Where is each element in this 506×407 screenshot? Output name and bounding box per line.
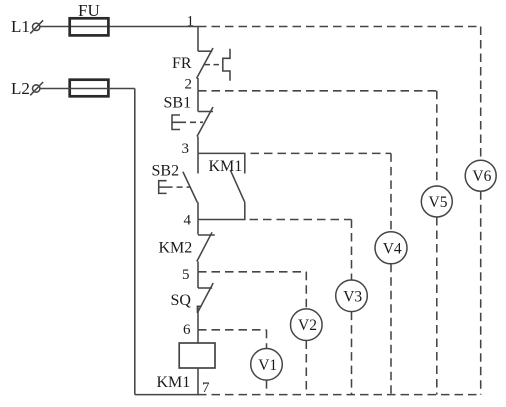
svg-text:3: 3 bbox=[182, 141, 190, 157]
svg-text:SB1: SB1 bbox=[164, 95, 192, 112]
SB1 actuator E bbox=[172, 115, 203, 130]
svg-text:KM1: KM1 bbox=[157, 374, 191, 391]
wire node 4 bbox=[198, 219, 246, 221]
dashed wire node 4 to V3 bbox=[250, 220, 352, 281]
svg-text:V6: V6 bbox=[472, 168, 491, 185]
svg-text:V4: V4 bbox=[383, 240, 402, 257]
limit switch SQ NC bbox=[171, 272, 214, 330]
svg-text:5: 5 bbox=[182, 267, 190, 283]
svg-text:SQ: SQ bbox=[171, 292, 192, 309]
wire node 3 to KM1 branch bbox=[198, 152, 246, 154]
voltmeter V2 bbox=[291, 309, 323, 341]
svg-text:L2: L2 bbox=[11, 79, 30, 98]
svg-text:V1: V1 bbox=[258, 357, 277, 374]
svg-text:4: 4 bbox=[184, 213, 192, 229]
pushbutton SB2 NO bbox=[152, 153, 199, 219]
svg-text:L1: L1 bbox=[11, 17, 30, 36]
contact KM1 auxiliary NO bbox=[209, 153, 245, 220]
dashed wire node 6 to V1 bbox=[198, 330, 267, 349]
svg-text:2: 2 bbox=[185, 77, 193, 93]
SB2 actuator E bbox=[159, 181, 190, 194]
dashed wire V1 to bottom bus bbox=[266, 380, 268, 395]
svg-text:KM1: KM1 bbox=[209, 158, 243, 175]
svg-text:SB2: SB2 bbox=[152, 163, 180, 180]
wire L1 to node 1 bbox=[40, 26, 198, 28]
dashed wire node 5 to V2 bbox=[198, 272, 306, 309]
dashed wire node 1 to V6 bbox=[198, 27, 481, 161]
contact KM2 NC bbox=[159, 220, 215, 272]
voltmeter V3 bbox=[336, 280, 368, 312]
dashed wire V3 to bottom bus bbox=[351, 312, 353, 395]
fuse FU2 bbox=[70, 80, 109, 97]
FR thermal element bbox=[205, 49, 231, 81]
wire L2 to bottom left corner bbox=[40, 89, 199, 395]
svg-text:V5: V5 bbox=[429, 194, 448, 211]
voltmeter V4 bbox=[375, 232, 407, 264]
terminal L1 bbox=[11, 17, 43, 36]
voltmeter V1 bbox=[251, 349, 283, 381]
terminal L2 bbox=[11, 79, 43, 98]
coil KM1 bbox=[157, 330, 216, 395]
voltmeter V5 bbox=[421, 186, 452, 217]
dashed bottom bus bbox=[198, 394, 481, 396]
dashed wire V2 to bottom bus bbox=[305, 341, 307, 395]
dashed wire V5 to bottom bus bbox=[436, 217, 438, 395]
svg-text:KM2: KM2 bbox=[159, 239, 193, 256]
svg-text:1: 1 bbox=[187, 14, 195, 30]
pushbutton SB1 NC bbox=[164, 91, 214, 154]
svg-text:6: 6 bbox=[183, 322, 191, 338]
contact FR thermal relay NC bbox=[172, 27, 213, 91]
svg-text:V3: V3 bbox=[343, 288, 362, 305]
svg-text:7: 7 bbox=[202, 380, 210, 396]
svg-text:V2: V2 bbox=[298, 317, 317, 334]
dashed wire V6 to bottom bus bbox=[480, 191, 482, 394]
fuse FU bbox=[70, 1, 109, 35]
voltmeter V6 bbox=[465, 160, 496, 191]
dashed wire node 2 to V5 bbox=[198, 91, 437, 186]
svg-text:FR: FR bbox=[172, 55, 192, 72]
dashed wire node 3 to V4 bbox=[251, 153, 392, 231]
dashed wire V4 to bottom bus bbox=[390, 264, 392, 395]
